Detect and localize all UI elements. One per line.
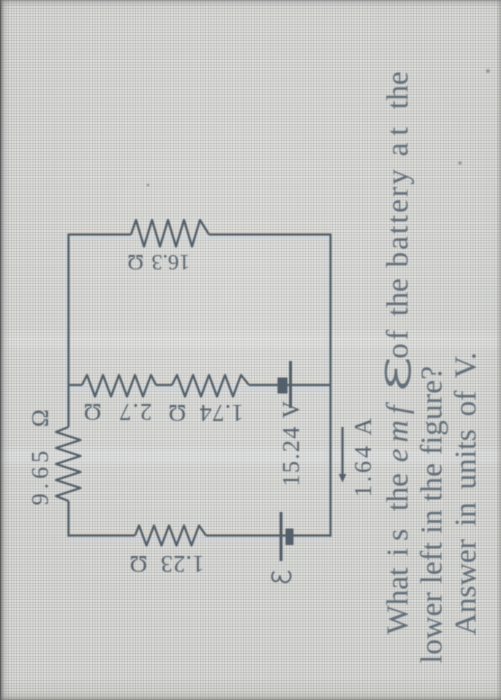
resistor 9.65 ohm (left rail)	[56, 427, 81, 501]
wire bottom rail right segment	[206, 534, 331, 536]
wire halo right rail	[326, 234, 328, 536]
wire top rail left segment	[69, 233, 132, 235]
dust speck mid right	[458, 161, 462, 165]
dust speck left of circuit	[147, 184, 150, 187]
wire right rail	[329, 234, 331, 537]
emf script-E symbol (rotated -90)	[272, 572, 291, 583]
current arrow 1.64 A head	[339, 474, 347, 483]
resistor 2.7 ohm (middle rail)	[172, 375, 249, 397]
svg-text:1.23 Ω: 1.23 Ω	[129, 550, 204, 576]
svg-text:1.74 Ω: 1.74 Ω	[167, 399, 243, 425]
battery 15.24 V positive plate (long thin)	[289, 361, 292, 408]
svg-text:2.7 Ω: 2.7 Ω	[82, 398, 152, 424]
wire left rail lower segment	[67, 501, 69, 537]
wire bottom rail left segment	[69, 534, 136, 536]
wire middle rail right segment to battery and right rail	[249, 384, 331, 386]
svg-text:9.65 Ω: 9.65 Ω	[28, 405, 54, 506]
dust speck upper right	[486, 69, 490, 73]
wire halo bottom rail	[69, 531, 330, 533]
wire top rail right segment	[209, 233, 331, 235]
wire halo left rail	[64, 234, 66, 427]
battery emf positive plate (long thin)	[280, 512, 283, 561]
wire middle rail connector between resistors	[156, 384, 172, 386]
svg-text:15.24 V: 15.24 V	[279, 400, 305, 487]
svg-text:1.64 A: 1.64 A	[351, 415, 377, 497]
wire halo middle rail	[69, 381, 330, 383]
wire middle rail left stub	[69, 384, 83, 386]
battery emf negative plate (thick short)	[286, 529, 294, 546]
wire left rail upper segment	[67, 234, 69, 428]
svg-text:16.3 Ω: 16.3 Ω	[127, 250, 190, 275]
battery 15.24 V negative plate (thick short)	[278, 378, 288, 394]
wire halo top rail	[69, 230, 330, 232]
resistor 16.3 ohm (top rail)	[131, 220, 209, 247]
resistor 1.74 ohm (middle rail)	[82, 375, 156, 397]
resistor 1.23 ohm (bottom rail)	[135, 526, 206, 546]
current arrow 1.64 A shaft	[341, 427, 343, 474]
